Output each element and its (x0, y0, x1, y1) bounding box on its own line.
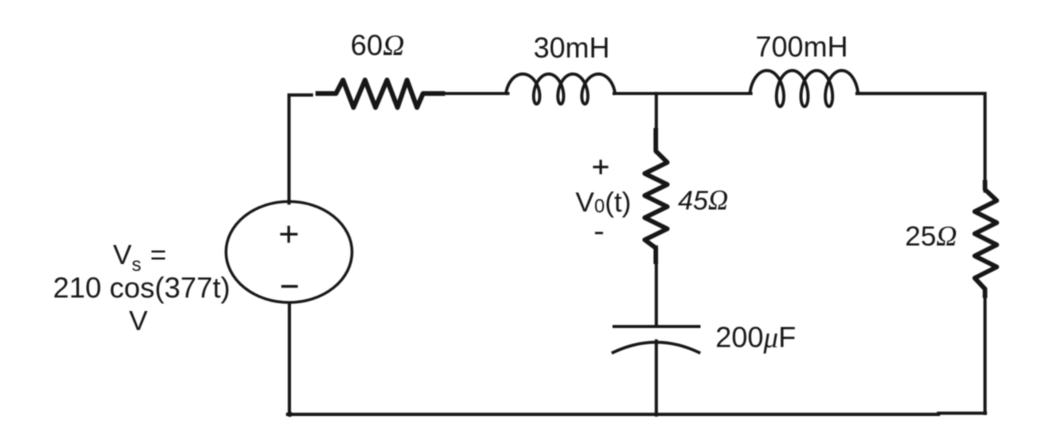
node V0 minus mark (595, 232, 603, 234)
inductor L1 30mH (506, 74, 615, 104)
junction dot bottom-left (287, 412, 292, 417)
capacitor C1 bottom curved plate (613, 342, 699, 352)
wire: left rail bottom (288, 303, 291, 415)
resistor R2 45ohm (645, 128, 668, 264)
wire: R1 to L1 (443, 92, 508, 95)
svg-text:Vs =: Vs = (113, 239, 167, 276)
svg-text:210 cos(377t): 210 cos(377t) (53, 273, 230, 305)
wire: node A vertical drop (655, 94, 658, 153)
capacitor C1 top plate (614, 325, 699, 328)
resistor R3 25ohm (975, 180, 997, 298)
svg-text:25Ω: 25Ω (905, 221, 957, 253)
svg-text:200μF: 200μF (716, 322, 796, 354)
wire: R2 to capacitor (655, 247, 658, 326)
wire: capacitor to bottom rail (655, 341, 658, 415)
svg-text:V: V (129, 305, 148, 336)
wire: L1 to L2 through node A (614, 92, 751, 95)
wire: bottom rail right segment (939, 412, 986, 415)
svg-text:V0(t): V0(t) (576, 187, 632, 218)
wire: bottom rail (288, 413, 939, 416)
svg-text:30mH: 30mH (534, 33, 610, 65)
voltage source VS circle (226, 202, 352, 303)
VS minus sign (281, 285, 298, 288)
node V0 plus mark (593, 160, 608, 175)
svg-text:45Ω: 45Ω (678, 186, 728, 217)
resistor R1 60ohm (316, 80, 446, 108)
svg-text:60Ω: 60Ω (351, 29, 405, 62)
wire: right rail below R3 (983, 296, 986, 413)
wire: L2 to right rail with top-right corner (857, 94, 985, 192)
wire: left rail top (corner to source top) (289, 95, 312, 203)
svg-text:700mH: 700mH (756, 32, 848, 64)
inductor L2 700mH (750, 71, 858, 107)
VS plus sign (280, 226, 297, 243)
